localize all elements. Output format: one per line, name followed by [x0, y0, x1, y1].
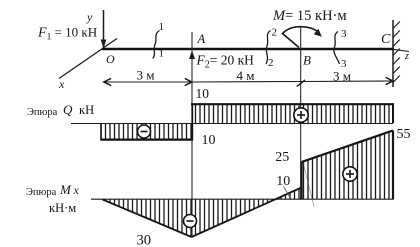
svg-text:3 м: 3 м: [333, 69, 351, 84]
svg-text:25: 25: [275, 150, 289, 165]
svg-text:C: C: [381, 32, 391, 47]
svg-text:2: 2: [272, 27, 278, 39]
svg-text:10: 10: [202, 133, 216, 148]
svg-text:M= 15 кН·м: M= 15 кН·м: [272, 8, 347, 24]
svg-text:1: 1: [159, 21, 165, 33]
svg-text:B: B: [303, 53, 311, 68]
svg-text:3: 3: [341, 28, 347, 40]
svg-text:кН: кН: [79, 103, 94, 117]
svg-text:z: z: [404, 51, 409, 62]
svg-text:Эпюра: Эпюра: [27, 107, 58, 118]
svg-text:55: 55: [397, 127, 411, 142]
svg-text:10: 10: [276, 174, 290, 189]
svg-text:Q: Q: [63, 102, 73, 117]
svg-text:y: y: [86, 10, 93, 24]
svg-text:кН·м: кН·м: [49, 201, 76, 215]
svg-text:10: 10: [196, 86, 210, 101]
svg-text:30: 30: [137, 233, 152, 247]
svg-text:M: M: [59, 182, 72, 197]
svg-text:O: O: [106, 52, 115, 66]
svg-text:3 м: 3 м: [137, 68, 155, 83]
svg-text:Эпюра: Эпюра: [26, 187, 57, 198]
svg-text:F1 = 10 кН: F1 = 10 кН: [37, 25, 97, 43]
svg-text:x: x: [73, 183, 80, 197]
svg-text:x: x: [58, 77, 65, 91]
svg-text:A: A: [197, 32, 206, 46]
svg-text:1: 1: [159, 48, 165, 60]
svg-text:2: 2: [268, 57, 274, 69]
svg-text:4 м: 4 м: [237, 68, 255, 83]
